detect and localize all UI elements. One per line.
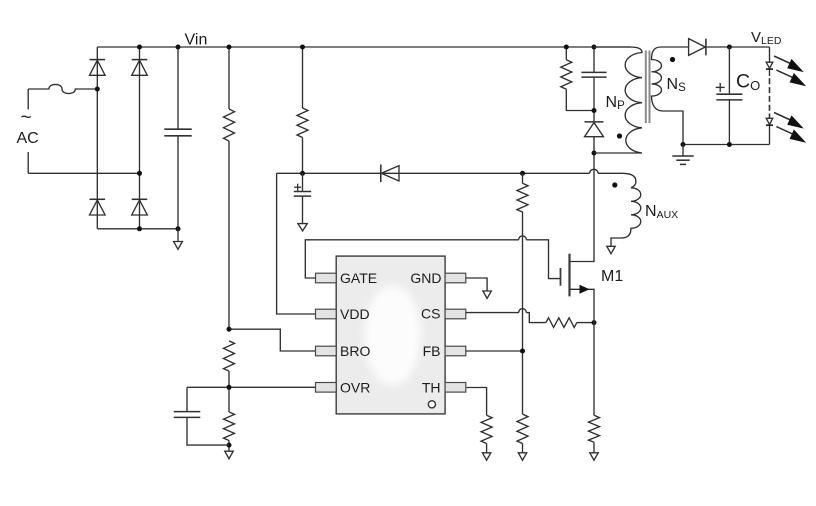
- pin GATE stub: [316, 273, 337, 283]
- wire: source node down to R9: [593, 323, 595, 416]
- pin TH stub: [445, 383, 466, 393]
- wire: bridge bottom rail: [97, 228, 178, 230]
- junction dot R3 top: [564, 45, 569, 50]
- wire: R9 bottom: [593, 442, 595, 453]
- svg-text:NS: NS: [667, 76, 687, 94]
- svg-text:OVR: OVR: [340, 379, 370, 395]
- wire: bridge right leg: [139, 47, 141, 229]
- pin OVR stub: [316, 383, 337, 393]
- junction dot C1 bottom: [176, 226, 181, 231]
- junction dot NS return: [681, 142, 686, 147]
- svg-text:TH: TH: [422, 379, 441, 395]
- resistor R1 (Vin to BRO divider): [224, 47, 235, 329]
- ground (R7): [482, 453, 490, 460]
- wire: Vin top rail: [97, 46, 630, 48]
- svg-text:CS: CS: [421, 306, 440, 322]
- pin FB stub: [445, 346, 466, 356]
- resistor R5 (BRO-OVR divider upper): [224, 341, 235, 371]
- capacitor C3 (snubber): [581, 47, 606, 121]
- resistor R6 (OVR to ground): [224, 412, 235, 441]
- pin VDD stub: [316, 309, 337, 319]
- phase dot NP: [617, 133, 622, 138]
- wire: R8 bottom: [522, 444, 524, 453]
- wire: R7 bottom: [486, 444, 488, 453]
- resistor R9 (source to ground): [589, 415, 600, 442]
- resistor R8 (FB node to ground): [517, 414, 528, 443]
- svg-text:Vin: Vin: [185, 32, 208, 49]
- diode D5 (aux to VDD, pointing left): [381, 165, 399, 183]
- fuse F1: [28, 84, 97, 93]
- LED arrows (top): [774, 56, 806, 86]
- junction dot AC-bridge: [137, 171, 142, 176]
- transformer primary winding NP: [594, 47, 642, 153]
- junction dot R6/C5 bottom: [227, 443, 232, 448]
- ground (secondary, 3-bar): [672, 145, 693, 165]
- svg-text:VLED: VLED: [751, 29, 782, 47]
- LED arrows (bottom): [774, 113, 806, 143]
- junction dot R1 top: [227, 45, 232, 50]
- resistor R4 (aux line to FB node): [517, 173, 528, 414]
- diode D7 (output rectifier): [689, 39, 770, 56]
- svg-text:AC: AC: [17, 130, 39, 147]
- diode D6 (snubber clamp): [585, 122, 604, 153]
- resistor R2 (Vin to VDD line): [297, 47, 308, 173]
- junction dot C1 top: [176, 45, 181, 50]
- svg-text:VDD: VDD: [340, 306, 370, 322]
- transformer secondary winding NS: [652, 47, 689, 145]
- junction dot fuse-bridge: [95, 87, 100, 92]
- resistor R3 (snubber): [561, 47, 594, 111]
- junction dot bridge top-right: [137, 45, 142, 50]
- wire: TH pin: [467, 388, 487, 416]
- ground (R8): [518, 453, 526, 460]
- junction dot snubber RC: [592, 108, 597, 113]
- capacitor C5 (OVR filter): [174, 387, 229, 445]
- svg-text:CO: CO: [736, 71, 760, 94]
- wire: secondary return rail: [683, 144, 770, 146]
- svg-text:GND: GND: [410, 270, 441, 286]
- ground (OVR divider): [225, 451, 233, 459]
- transformer auxiliary winding NAUX: [611, 173, 641, 246]
- svg-text:GATE: GATE: [340, 270, 377, 286]
- resistor R7 (TH to ground): [481, 415, 492, 443]
- svg-text:NAUX: NAUX: [645, 203, 678, 221]
- svg-text:NP: NP: [606, 94, 626, 112]
- capacitor C2 (VDD, polarized): [294, 173, 311, 223]
- wire: FB pin to divider riser: [466, 350, 523, 352]
- ground (GND pin): [483, 291, 491, 298]
- resistor R10 (current sense): [546, 318, 577, 328]
- junction dot BRO tap: [227, 327, 232, 332]
- wire: VDD feed down to VDD pin: [277, 173, 316, 314]
- junction dot Co bottom: [727, 142, 732, 147]
- diode D4 (bridge bottom-right): [132, 199, 148, 215]
- phase dot NS: [670, 57, 675, 62]
- diode D2 (bridge top-right): [132, 60, 148, 76]
- IC U1 body: [336, 256, 445, 414]
- junction dot aux divider node: [520, 171, 525, 176]
- LED D9 (bottom): [766, 118, 773, 144]
- svg-text:~: ~: [21, 108, 32, 129]
- junction dot primary bottom: [592, 151, 597, 156]
- phase dot NAUX: [612, 182, 617, 187]
- junction dot source node: [592, 320, 597, 325]
- junction dot R2 top: [300, 45, 305, 50]
- transistor Q1 MOSFET M1: [561, 153, 595, 323]
- wire: GATE to MOSFET gate (hop over FB riser): [305, 236, 560, 279]
- junction dot VDD node: [300, 171, 305, 176]
- wire: VDD/aux rail (with hop over drain line): [277, 169, 622, 173]
- ground (bridge): [174, 229, 183, 250]
- diode D3 (bridge bottom-left): [90, 199, 106, 215]
- wire: R5 to OVR node: [228, 371, 230, 412]
- ground (R9): [590, 453, 598, 460]
- transformer core: [646, 51, 650, 124]
- junction dot OVR node: [227, 385, 232, 390]
- junction dot bottom rail mid: [137, 226, 142, 231]
- capacitor C1 (bulk): [164, 47, 191, 229]
- wire: OVR tap: [187, 386, 316, 388]
- wire: dashed LED string: [769, 78, 771, 118]
- junction dot FB node: [520, 349, 525, 354]
- wire: AC return bottom: [28, 172, 139, 174]
- ground (VDD cap): [298, 224, 307, 231]
- wire: R6 bottom: [228, 441, 230, 452]
- wire: sense resistor to source node: [577, 322, 594, 324]
- wire: GND pin to ground: [466, 278, 487, 291]
- ground (NAUX): [607, 246, 615, 253]
- AC source: [17, 89, 39, 173]
- junction dot VLED node: [727, 45, 732, 50]
- pin BRO stub: [316, 346, 337, 356]
- wire: BRO tap: [229, 329, 316, 351]
- junction dot C3 top: [592, 45, 597, 50]
- wire: bridge left leg: [96, 47, 98, 229]
- pin CS stub: [445, 309, 466, 319]
- svg-text:BRO: BRO: [340, 343, 370, 359]
- capacitor Co (output): [716, 47, 743, 145]
- wire: CS to sense resistor (hop over FB riser): [466, 309, 546, 323]
- svg-text:M1: M1: [601, 268, 623, 285]
- pin GND stub: [445, 273, 466, 283]
- svg-text:FB: FB: [423, 343, 441, 359]
- diode D1 (bridge top-left): [90, 60, 106, 76]
- LED D8 (top): [766, 47, 773, 76]
